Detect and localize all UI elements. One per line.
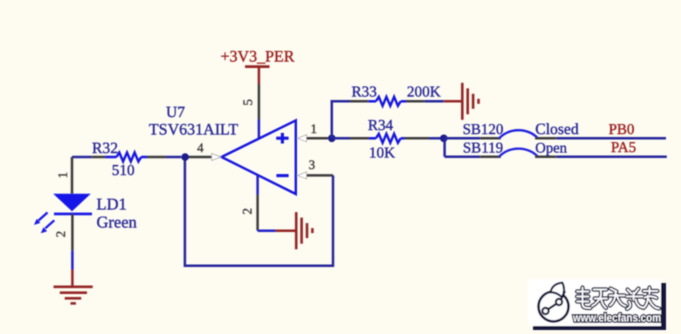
svg-text:10K: 10K <box>369 145 395 162</box>
svg-text:4: 4 <box>197 140 204 155</box>
svg-text:SB119: SB119 <box>463 141 503 157</box>
svg-text:Open: Open <box>535 141 567 157</box>
svg-text:SB120: SB120 <box>463 122 504 138</box>
svg-text:1: 1 <box>55 172 70 179</box>
svg-text:LD1: LD1 <box>97 194 127 213</box>
svg-text:PB0: PB0 <box>609 122 635 138</box>
svg-text:2: 2 <box>53 231 68 238</box>
svg-text:TSV631AILT: TSV631AILT <box>149 121 238 138</box>
svg-text:510: 510 <box>112 162 135 179</box>
svg-text:Green: Green <box>97 213 137 232</box>
svg-text:R34: R34 <box>368 117 394 134</box>
svg-text:PA5: PA5 <box>611 140 636 156</box>
svg-text:5: 5 <box>240 99 255 106</box>
svg-text:+3V3_PER: +3V3_PER <box>221 49 295 66</box>
svg-text:2: 2 <box>240 208 255 215</box>
svg-text:200K: 200K <box>407 83 441 100</box>
svg-text:3: 3 <box>309 157 316 172</box>
svg-text:R32: R32 <box>92 140 118 157</box>
svg-text:R33: R33 <box>352 83 377 100</box>
svg-text:1: 1 <box>311 121 318 136</box>
svg-text:Closed: Closed <box>535 121 579 138</box>
svg-text:www.elecfans.com: www.elecfans.com <box>572 313 661 325</box>
svg-text:U7: U7 <box>166 104 185 121</box>
